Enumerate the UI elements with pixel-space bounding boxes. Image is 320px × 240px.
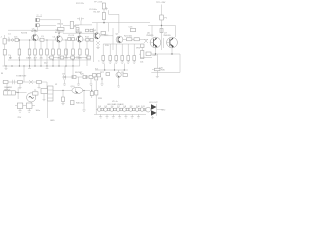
resistor R21c <box>71 56 75 59</box>
svg-text:R25: R25 <box>80 74 85 76</box>
diode D7 <box>116 106 122 111</box>
wire j2 down <box>47 101 49 118</box>
source V1 <box>27 93 36 102</box>
wire drops to cans <box>152 26 176 38</box>
resistor R28 <box>121 44 124 63</box>
diode D4 <box>97 106 103 111</box>
wire q10 right <box>83 89 90 91</box>
svg-text:J2: J2 <box>55 84 58 86</box>
wire drop x24 <box>23 66 25 82</box>
resistor R30 <box>133 44 136 63</box>
diode D1 <box>96 41 100 48</box>
resistor R36b <box>89 76 93 79</box>
resistor R16L <box>58 41 61 67</box>
capacitor C12b <box>77 56 78 59</box>
diode D2 <box>144 39 148 43</box>
resistor R22 <box>101 32 109 37</box>
svg-text:4k7: 4k7 <box>34 58 38 60</box>
wire drop q4 <box>96 23 98 33</box>
wire fuse down <box>161 20 163 26</box>
wire top rail right <box>148 25 176 26</box>
resistor R21a <box>50 56 54 59</box>
svg-text:2k2: 2k2 <box>44 63 48 65</box>
ground gR31 <box>156 72 159 77</box>
resistor R39 <box>41 89 48 100</box>
transistor Q10 oval <box>72 87 83 93</box>
ground gR39 <box>43 100 46 101</box>
node n1 <box>19 39 20 40</box>
junction bus1 dots <box>19 60 74 61</box>
resistor R17L <box>65 41 68 67</box>
resistor R13L <box>40 41 43 67</box>
svg-text:D11: D11 <box>141 106 146 108</box>
svg-text:VR2: VR2 <box>136 48 141 50</box>
resistor R34 <box>37 81 42 84</box>
junction dots mid <box>64 76 86 77</box>
svg-text:J: J <box>1 37 2 39</box>
wire drop r22 <box>108 23 110 32</box>
svg-text:2N3055: 2N3055 <box>163 35 171 37</box>
junction bus dots <box>5 65 73 66</box>
resistor R29b <box>160 29 163 33</box>
svg-text:R21 560: R21 560 <box>124 36 133 38</box>
resistor R37a <box>93 74 97 77</box>
resistor R30 <box>146 52 157 57</box>
wire input verticals <box>4 35 6 66</box>
wire speaker links <box>144 110 162 119</box>
wire Q2 collector <box>58 33 60 36</box>
wire drop to stage <box>118 23 120 33</box>
svg-text:IN: IN <box>1 73 4 75</box>
wire between cans <box>162 26 164 51</box>
wire output down <box>157 54 180 72</box>
svg-text:2N3055: 2N3055 <box>146 35 154 37</box>
capacitor C2 <box>36 15 42 17</box>
wire stage link <box>100 28 113 50</box>
resistor R31 <box>151 68 180 72</box>
junction dot q <box>101 78 102 79</box>
svg-text:R30: R30 <box>153 55 158 57</box>
diode D10 <box>135 106 141 111</box>
wire vr1 to out <box>140 57 152 59</box>
svg-text:1k: 1k <box>18 58 21 60</box>
resistor R8 series <box>86 38 89 41</box>
transistor Q5 <box>116 36 123 43</box>
capacitor C15a <box>64 75 66 80</box>
ground g4 <box>6 84 9 89</box>
svg-text:R35: R35 <box>161 70 166 72</box>
potentiometer VR0 <box>65 50 68 58</box>
capacitor C16 <box>17 103 23 108</box>
capacitor C6 <box>77 18 84 25</box>
capacitor C3 <box>36 18 56 21</box>
svg-text:8R2: 8R2 <box>162 109 167 111</box>
resistor R14L <box>46 41 49 67</box>
svg-text:D6: D6 <box>111 106 115 108</box>
diode DA solid <box>151 104 157 109</box>
capacitor C12 <box>72 38 75 41</box>
svg-text:C: C <box>98 61 100 63</box>
junction dots <box>155 53 173 54</box>
svg-text:D10: D10 <box>136 106 141 108</box>
svg-text:LS1 OUT: LS1 OUT <box>149 102 158 104</box>
resistor R6 series <box>15 38 18 41</box>
resistor R7 series <box>40 38 44 41</box>
resistor R9c <box>90 29 93 32</box>
svg-text:D9: D9 <box>130 106 134 108</box>
svg-text:R2 4k7: R2 4k7 <box>94 12 101 14</box>
svg-text:TONE NET: TONE NET <box>16 76 27 78</box>
wire q10 left <box>53 90 72 97</box>
svg-text:47k: 47k <box>65 58 69 60</box>
ground g12 <box>28 108 31 112</box>
resistor R33 <box>18 81 23 84</box>
ground g7 <box>63 80 66 86</box>
resistor R21b <box>60 56 64 59</box>
junction rail dots <box>34 30 80 34</box>
fuse F1 <box>160 15 168 20</box>
resistor R4 input <box>3 39 6 45</box>
junction dots bc <box>91 90 92 91</box>
ladder right <box>94 28 141 63</box>
ground gc6 <box>131 114 134 118</box>
junction <box>103 22 104 23</box>
ground gc1 <box>99 114 102 118</box>
ground gnd1 <box>96 48 99 49</box>
resistor R42 <box>95 81 98 114</box>
capacitor C5 <box>63 22 79 29</box>
diode D5 <box>104 106 110 111</box>
node dots sig <box>29 39 88 40</box>
ground gc4 <box>118 114 121 118</box>
wire q10 bottom drop <box>82 90 85 112</box>
svg-text:VD 4x: VD 4x <box>112 101 119 103</box>
resistor R29c <box>141 44 145 48</box>
resistor R35 <box>72 76 76 79</box>
resistor R20L <box>86 41 89 67</box>
capacitor C1 plus mark <box>105 7 108 10</box>
wire rail step <box>62 30 64 33</box>
resistor R5 input <box>3 50 6 56</box>
wire ladder top link <box>103 43 140 45</box>
resistor R26 <box>109 44 112 63</box>
resistor R37c <box>106 73 110 76</box>
transistor Q1 <box>32 34 38 40</box>
svg-text:100u: 100u <box>36 110 41 112</box>
ground gc5 <box>124 114 127 118</box>
transistor Q3 <box>77 36 83 42</box>
resistor R25 <box>102 44 105 63</box>
wire rail mid <box>75 24 92 26</box>
svg-text:R27: R27 <box>100 72 105 74</box>
resistor R12L <box>34 41 37 67</box>
capacitor C13 <box>129 27 136 32</box>
svg-text:1k: 1k <box>9 58 12 60</box>
wire hline70 <box>95 69 128 71</box>
wire Q3 collector <box>79 33 81 36</box>
resistor R32 <box>3 81 8 84</box>
resistor R1 <box>102 3 105 13</box>
svg-text:TP2 +28V: TP2 +28V <box>156 2 166 4</box>
svg-text:R40 2k2: R40 2k2 <box>76 103 85 105</box>
resistor R21d <box>87 56 91 59</box>
ground g5 <box>19 84 22 89</box>
transistor Q6 output <box>150 37 161 48</box>
connector J2 <box>48 86 54 101</box>
label ladder values <box>18 58 90 60</box>
diode D8 <box>123 106 129 111</box>
ground gc3 <box>112 114 115 118</box>
svg-text:R4 1M: R4 1M <box>21 33 27 35</box>
wire emitters down <box>148 48 180 54</box>
diode D9 <box>129 106 135 111</box>
svg-text:GND: GND <box>50 120 55 122</box>
svg-text:C5 C6: C5 C6 <box>68 35 75 37</box>
wire circle down <box>30 102 32 103</box>
diode D3 <box>29 80 33 84</box>
svg-text:D7: D7 <box>117 106 121 108</box>
resistor R41 <box>90 85 93 98</box>
resistor R10L <box>18 41 21 67</box>
wire TP2 drop <box>161 5 163 16</box>
resistor R29 <box>127 44 130 63</box>
wire drop from bus <box>65 66 73 76</box>
diode D11 <box>140 106 146 111</box>
resistor R18L <box>72 41 75 67</box>
resistor R37b <box>97 74 101 77</box>
svg-text:LED BIAS CHAIN: LED BIAS CHAIN <box>107 103 124 106</box>
svg-text:R17 22k: R17 22k <box>76 3 85 5</box>
connector J1 <box>4 91 16 95</box>
wire chain bus <box>94 113 146 115</box>
wire j1 stub <box>15 88 26 100</box>
wire bottom run <box>15 105 35 107</box>
diode DB solid <box>151 110 157 115</box>
resistor R9b <box>86 29 89 32</box>
svg-text:10k: 10k <box>140 62 144 64</box>
svg-text:D8: D8 <box>123 106 127 108</box>
wire bus1 <box>8 59 91 61</box>
ground g6 <box>38 84 41 89</box>
resistor R2 <box>102 13 105 23</box>
ground g13 <box>61 104 64 105</box>
capacitor C14 <box>13 80 15 84</box>
resistor R24 <box>132 38 148 41</box>
wire feedback line <box>48 57 91 59</box>
capacitor C5b <box>74 25 79 32</box>
ground g9 <box>90 79 93 86</box>
capacitor C17 <box>26 103 32 108</box>
transistor Q4 <box>94 33 100 39</box>
resistor R40 <box>71 101 75 105</box>
wire top rail2 <box>63 32 96 34</box>
ground input <box>8 55 12 59</box>
junction dots h70 <box>104 69 125 70</box>
capacitor C19 <box>33 92 39 95</box>
label specks <box>1 33 166 123</box>
svg-text:C1: C1 <box>8 34 12 36</box>
wire branch <box>109 10 119 23</box>
svg-text:R19: R19 <box>105 45 110 47</box>
transistor Q7 output <box>167 37 178 48</box>
wire Q1 collector <box>34 30 36 34</box>
ground tick a <box>5 66 8 70</box>
svg-text:22k: 22k <box>40 58 44 60</box>
ground g10 <box>101 84 104 85</box>
resistor R38 <box>123 74 127 77</box>
node jack <box>11 39 13 41</box>
resistor R27 <box>115 44 118 63</box>
node output circle <box>146 107 151 112</box>
ground g8 <box>77 77 80 85</box>
svg-text:Q5: Q5 <box>116 34 120 36</box>
svg-text:25V: 25V <box>18 117 22 119</box>
transistor Q2 <box>56 36 62 42</box>
ground tick c <box>46 66 49 68</box>
wire right vline <box>93 28 95 62</box>
wire +V bus <box>92 22 150 24</box>
capacitor C11 <box>68 38 71 41</box>
svg-text:D5: D5 <box>105 106 109 108</box>
ground gc7 <box>137 114 140 118</box>
resistor R9 series <box>90 38 93 41</box>
wire top rail <box>8 29 63 31</box>
svg-text:C3: C3 <box>41 36 45 38</box>
ground g11 <box>18 108 21 112</box>
wire chain line <box>96 109 146 111</box>
svg-text:TP +15V: TP +15V <box>94 2 103 4</box>
potentiometer VR1 <box>139 46 144 59</box>
capacitor C4 <box>36 24 56 30</box>
ground tick b <box>28 66 31 68</box>
resistor R11L <box>28 41 31 67</box>
resistor R3 <box>56 20 64 31</box>
svg-text:C4: C4 <box>53 37 57 39</box>
wire cathode bar <box>156 104 158 116</box>
capacitor C10 <box>8 37 9 42</box>
wire ground bus <box>3 65 81 67</box>
wire verticals to 70 <box>105 64 125 73</box>
svg-text:C9 100u: C9 100u <box>89 9 98 11</box>
wire tone line <box>3 81 48 83</box>
svg-text:33k: 33k <box>79 58 83 60</box>
capacitor C15 vertical <box>95 75 98 81</box>
wire drop x47 <box>46 82 48 90</box>
resistor R23 <box>123 38 132 41</box>
svg-text:D4: D4 <box>98 106 102 108</box>
svg-text:R33: R33 <box>98 98 103 100</box>
diode D6 <box>110 106 116 111</box>
resistor R36 <box>83 76 87 79</box>
capacitor C18 <box>62 97 65 104</box>
ground gc2 <box>106 114 109 118</box>
resistor R15L <box>52 41 55 67</box>
resistor R19L <box>79 41 82 67</box>
wire mid line <box>62 76 94 78</box>
wire q9 drop <box>102 77 120 87</box>
wire signal line <box>6 39 92 41</box>
transistor Q9 <box>116 72 121 77</box>
svg-text:F1: F1 <box>165 18 168 20</box>
